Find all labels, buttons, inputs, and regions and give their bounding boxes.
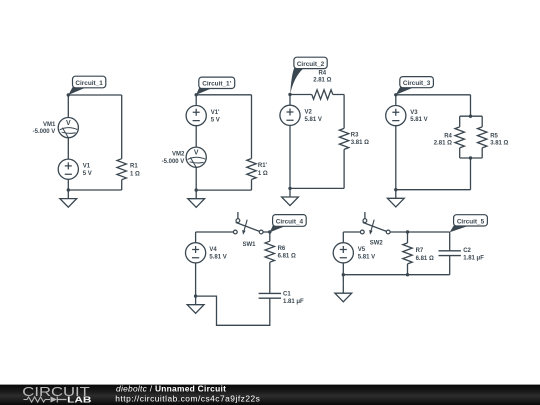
svg-text:Circuit_2: Circuit_2 [297,61,325,68]
svg-text:R4: R4 [444,133,452,139]
wire top circuit5 right [390,231,450,233]
svg-text:V2: V2 [305,110,313,116]
svg-text:C1: C1 [283,291,291,297]
ground circuit3 [387,190,404,207]
svg-text:Circuit_3: Circuit_3 [403,80,431,87]
svg-text:5.81 V: 5.81 V [358,255,375,261]
ground circuit4 [187,296,204,313]
wire switch to R6 node [263,231,270,233]
voltage source V2 [280,105,300,125]
svg-text:Circuit_1': Circuit_1' [202,81,231,88]
svg-text:5.81 V: 5.81 V [410,117,427,123]
flag Circuit_1' [196,77,235,95]
svg-text:6.81 Ω: 6.81 Ω [278,254,296,260]
node dot R6 top [268,230,271,233]
resistor R1 [117,159,126,180]
wire top circuit1 [68,94,121,96]
svg-text:2.81 Ω: 2.81 Ω [434,141,452,147]
svg-text:R1': R1' [258,163,268,169]
voltmeter VM1 [58,118,78,138]
junction dot R7 top [406,230,409,233]
flag Circuit_5 [450,215,488,233]
resistor R5 [478,127,487,148]
ground circuit1 [60,190,77,207]
resistor R7 [403,243,412,264]
voltage source V1' [186,106,206,126]
junction dot circuit1 bottom [67,188,70,191]
wire left branch circuit4 [195,232,197,296]
wire bottom circuit1p [196,189,251,191]
flag Circuit_3 [396,77,434,95]
switch SW1 [233,212,263,235]
wire left branch circuit3 [395,95,397,190]
resistor R1' [247,159,256,180]
wire bottom circuit1 [68,189,121,191]
wire top circuit5 left [343,231,360,233]
junction dot circuit4 [194,294,197,297]
svg-text:R5: R5 [490,133,498,139]
svg-text:V1: V1 [83,163,91,169]
junction dot circuit2 bottom [288,187,291,190]
logo resistor-diode glyph [24,397,51,402]
svg-text:Circuit_4: Circuit_4 [276,218,304,225]
ground circuit1p [188,190,205,207]
wire R7 branch [407,232,409,275]
voltage source V1 [58,159,78,179]
svg-text:SW1: SW1 [242,242,256,248]
wire right branch circuit1 [121,95,123,190]
wire C1 bottom to loop [196,296,270,325]
wire top circuit1p [196,94,251,96]
wire C2 branch [449,232,451,275]
ground circuit5 [342,275,344,285]
node dot circuit2 top [288,93,291,96]
svg-text:R1: R1 [130,163,138,169]
capacitor C2 [439,251,461,256]
svg-text:V5: V5 [358,247,366,253]
svg-text:SW2: SW2 [370,241,384,247]
node dot circuit1p top [195,93,198,96]
ground circuit2 [282,188,299,205]
wire left branch circuit2 [289,95,291,189]
svg-text:1.81 μF: 1.81 μF [463,256,484,262]
svg-text:R3: R3 [351,132,359,138]
svg-text:http://circuitlab.com/cs4c7a9j: http://circuitlab.com/cs4c7a9jfz22s [115,394,260,404]
junction dot parallel top [469,115,472,118]
voltage source V5 [333,243,353,263]
voltmeter VM2 [186,147,206,167]
svg-text:2.81 Ω: 2.81 Ω [313,77,331,83]
wire top circuit3 [396,94,471,96]
node dot circuit3 top [394,93,397,96]
wire right branch circuit1p [251,95,253,190]
wire top circuit4 [196,231,234,233]
wire right stem circuit3 [470,95,472,190]
resistor R4 horizontal [312,90,333,99]
wire left branch circuit1 [67,95,69,190]
junction dot parallel bottom [469,156,472,159]
voltage source V3 [386,106,406,126]
svg-text:Circuit_5: Circuit_5 [457,218,485,225]
junction dot circuit1p bottom [195,188,198,191]
svg-text:1 Ω: 1 Ω [258,171,268,177]
capacitor C1 [259,293,281,298]
footer background [0,385,540,405]
node dot circuit1 top [67,93,70,96]
svg-text:5.81 V: 5.81 V [305,117,322,123]
resistor R3 [339,128,348,149]
svg-text:1.81 μF: 1.81 μF [283,299,304,305]
svg-text:R4: R4 [318,70,326,76]
wire parallel rails circuit3 [460,116,483,158]
svg-text:VM2: VM2 [172,152,185,158]
svg-text:dieboltc / Unnamed Circuit: dieboltc / Unnamed Circuit [116,384,226,394]
svg-text:C2: C2 [463,248,471,254]
svg-text:3.81 Ω: 3.81 Ω [351,140,369,146]
switch SW2 [360,212,390,235]
svg-text:1 Ω: 1 Ω [130,171,140,177]
flag Circuit_2 [290,57,327,94]
flag Circuit_1 [68,76,106,95]
resistor R4 parallel [455,127,464,148]
svg-text:5.81 V: 5.81 V [209,255,226,261]
wire right branch circuit2 [343,95,345,189]
wire bottom circuit3 [396,189,471,191]
svg-text:V3: V3 [410,110,418,116]
svg-text:VM1: VM1 [43,122,56,128]
wire left branch circuit1p [195,95,197,190]
svg-text:5 V: 5 V [211,117,220,123]
svg-text:3.81 Ω: 3.81 Ω [490,141,508,147]
svg-text:Circuit_1: Circuit_1 [75,80,103,87]
wire R6 branch [269,232,271,293]
svg-text:5 V: 5 V [83,171,92,177]
wire bottom circuit5 [343,274,449,276]
wire left branch circuit5 [342,232,344,275]
voltage source V4 [186,243,206,263]
junction dot circuit5 ground [342,273,345,276]
svg-text:6.81 Ω: 6.81 Ω [416,256,434,262]
svg-text:V4: V4 [209,247,217,253]
junction dot circuit3 bottom [394,188,397,191]
svg-text:R6: R6 [278,246,286,252]
wire bottom circuit2 [290,187,344,189]
flag Circuit_4 [270,215,306,233]
junction dot R7 bottom [406,273,409,276]
svg-text:LAB: LAB [67,395,92,404]
svg-text:V1': V1' [211,110,220,116]
resistor R6 [265,241,274,262]
svg-text:-5.000 V: -5.000 V [33,129,56,135]
wire top circuit2 [290,94,344,96]
svg-text:-5.000 V: -5.000 V [162,159,185,165]
svg-text:R7: R7 [416,248,424,254]
